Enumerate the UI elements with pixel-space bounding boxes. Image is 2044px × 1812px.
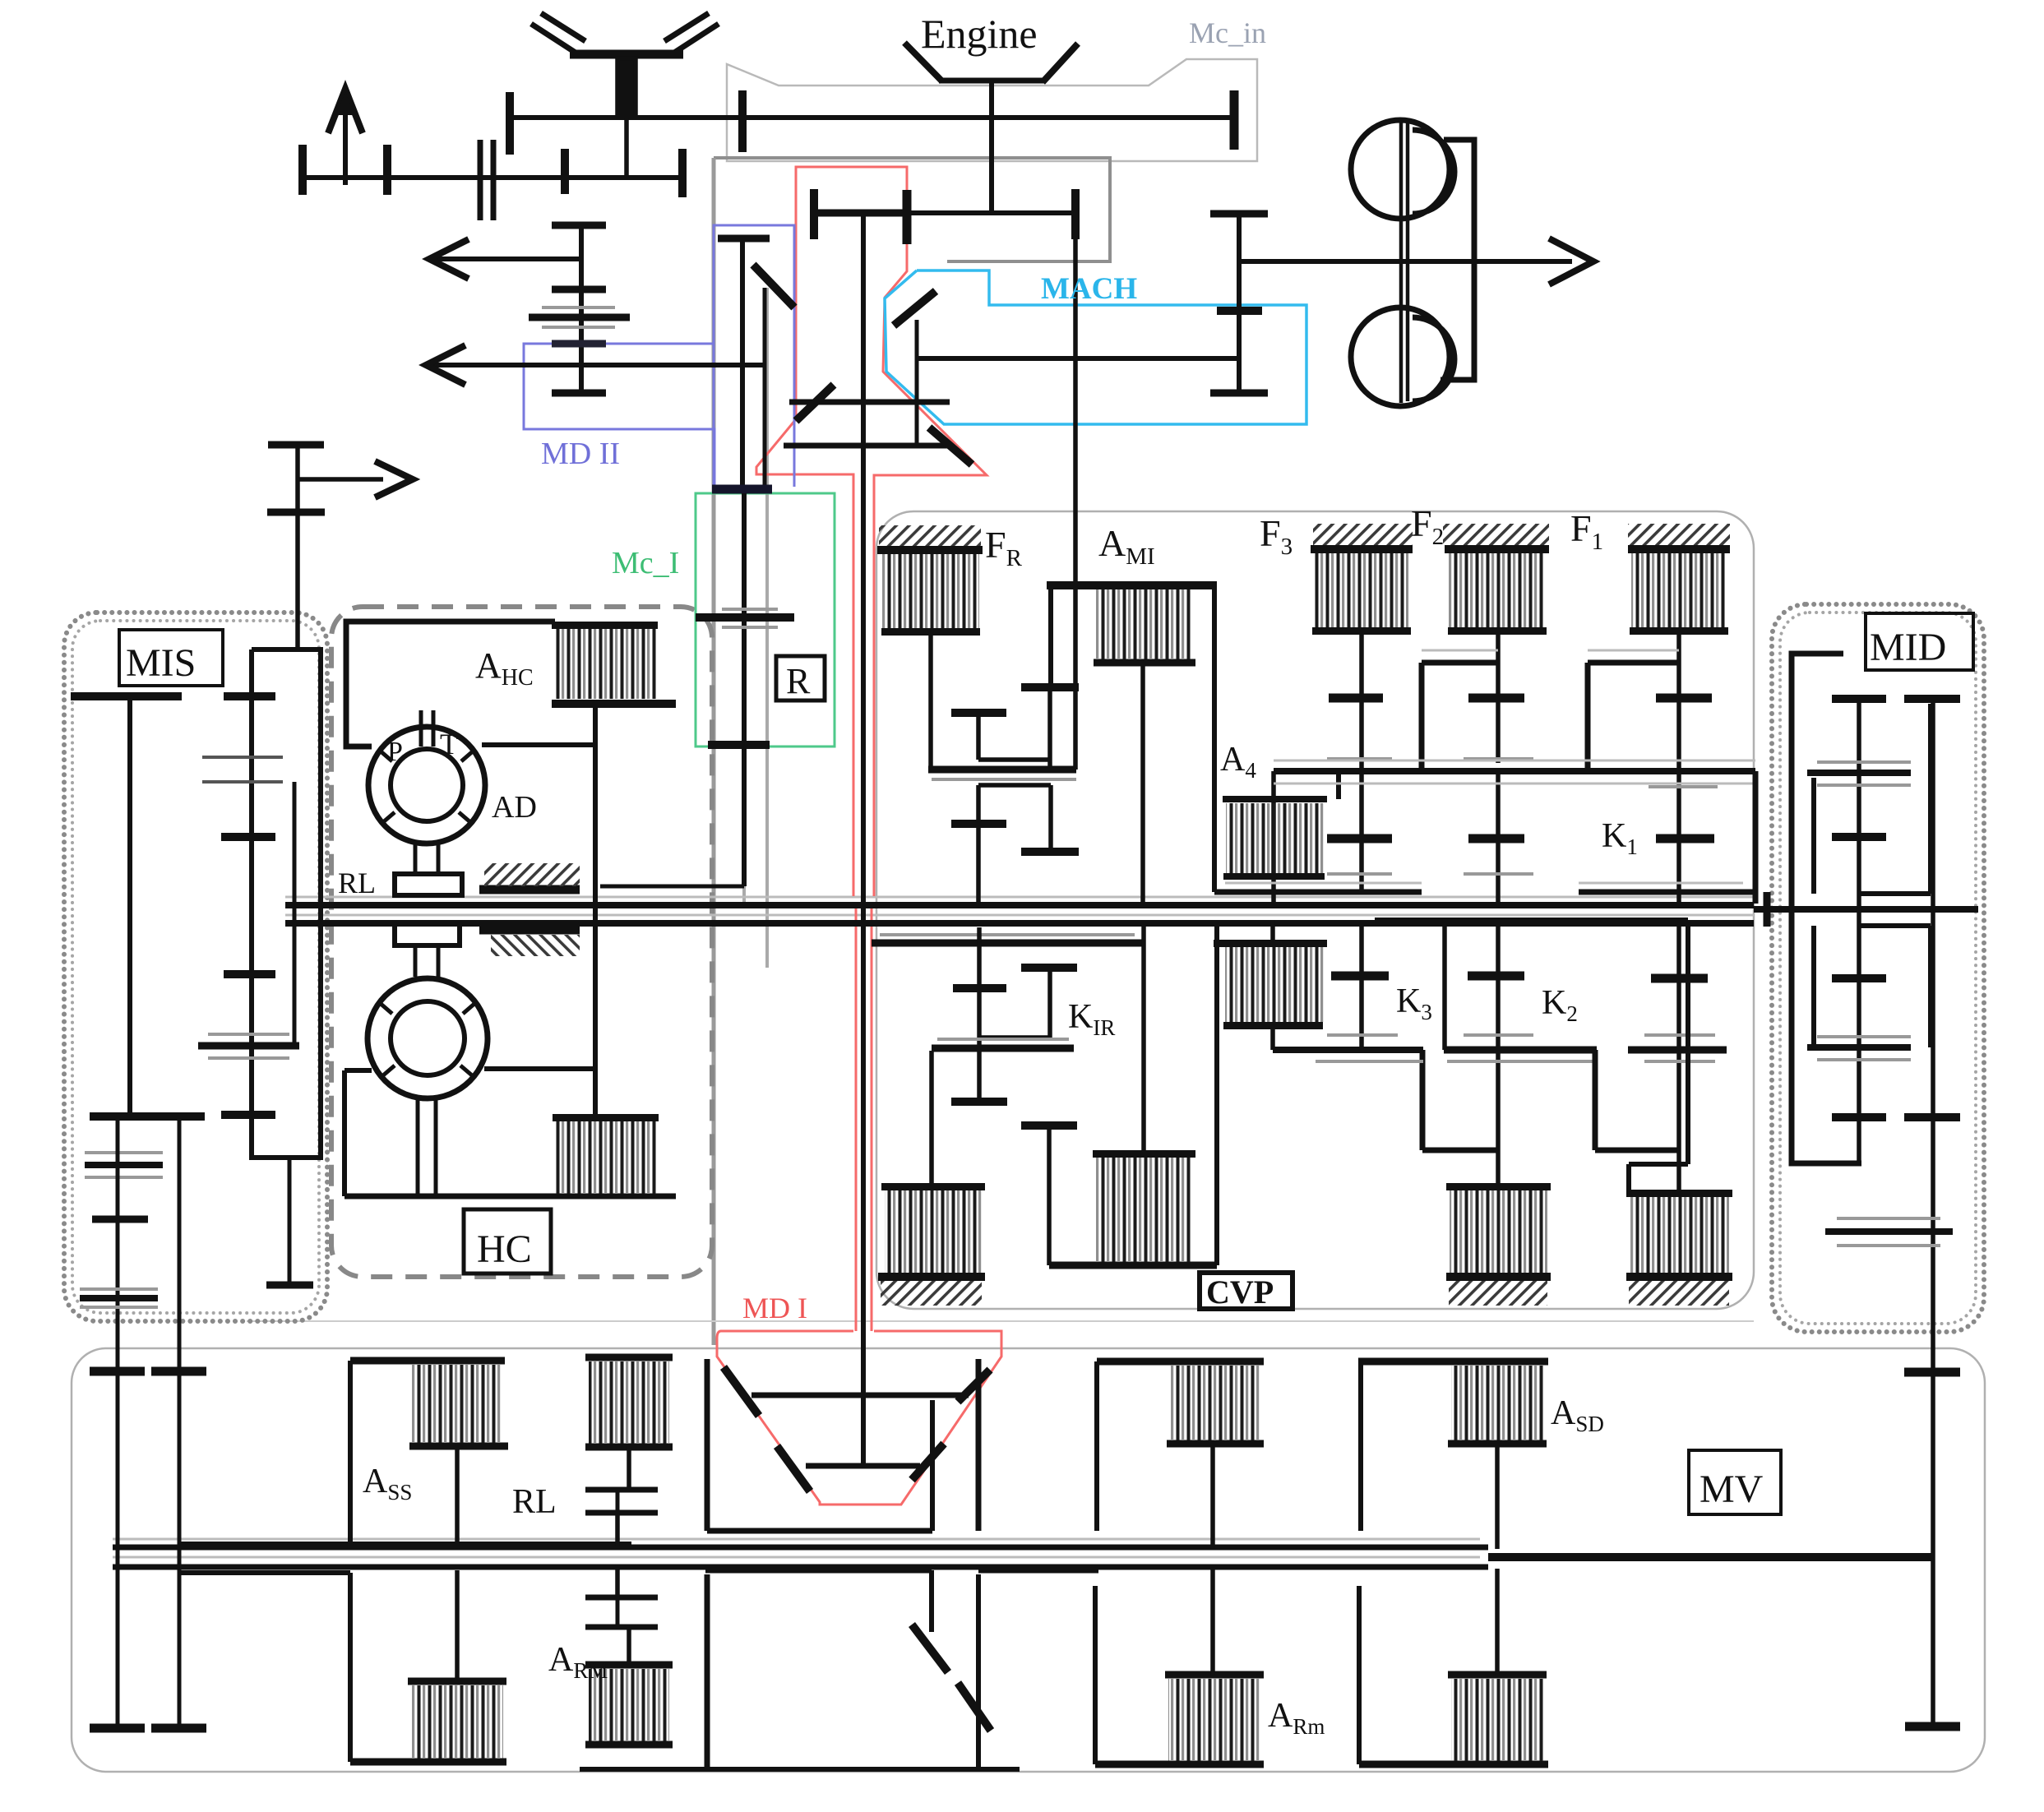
MD II top T bar (552, 222, 606, 229)
svg-text:RL: RL (512, 1483, 557, 1521)
A_Rm housing left leg (1094, 1361, 1099, 1531)
brake K2 ground pack (1626, 1190, 1732, 1197)
input tick x990 (810, 189, 818, 239)
svg-text:R: R (786, 661, 811, 701)
A_SD pack bottom bar (1448, 1440, 1547, 1448)
countershaft top T bar (1210, 210, 1268, 218)
funnel inner wall (930, 1400, 935, 1531)
F2 gray echo low (1464, 872, 1533, 876)
A_HC leg (593, 706, 598, 1117)
HC link circle2 (484, 1066, 595, 1071)
below A_SS link y1913 (180, 1570, 350, 1575)
planet stem x1190 lower (976, 785, 981, 904)
svg-text:CVP: CVP (1206, 1273, 1274, 1310)
MID axis1 tick y850 (1832, 695, 1886, 703)
svg-text:MACH: MACH (1041, 272, 1137, 306)
K_IR leg x1133 (929, 1051, 934, 1186)
MV shaft top line (113, 1545, 1488, 1551)
A_SD housing top bar (1358, 1358, 1548, 1366)
MID housing2 box (1814, 926, 1931, 1047)
main shaft top line (285, 902, 1754, 908)
A_SD housing left leg (1358, 1361, 1363, 1531)
jog F1 (1588, 663, 1679, 771)
A_SD stem (1495, 1445, 1500, 1549)
RL lower link (617, 1569, 629, 1665)
K1 gear tick y1020 (1656, 834, 1714, 844)
MV shaft gray shadow (113, 1538, 1480, 1541)
clutch P_mid pack (1093, 1150, 1195, 1158)
below A_SS bottom bar (350, 1759, 506, 1766)
tick lower shaft x471 (383, 145, 391, 195)
below funnel inner wall (929, 1570, 934, 1632)
below A_SD leg (1357, 1586, 1362, 1764)
pump2 circle outer (368, 978, 488, 1098)
P_mid bottom bar (1049, 1262, 1217, 1269)
A_SS lower link line (180, 1542, 631, 1546)
F2 gray echo (1464, 757, 1533, 760)
svg-text:Mc_I: Mc_I (612, 546, 679, 580)
funnel housing left wall (705, 1359, 710, 1531)
RL pack bottom bar (585, 1444, 673, 1451)
A_SS pack bottom bar (409, 1443, 508, 1450)
brake F_R pack (879, 525, 981, 548)
MD II right column axis (740, 238, 745, 487)
RL link to shaft (615, 1513, 620, 1546)
K_IR thick bar y1275 (932, 1045, 1074, 1052)
rail2 right segment (1579, 890, 1754, 895)
right arrow line (298, 477, 383, 482)
pump1 lower pipe (415, 844, 438, 874)
clutch P_low1 pack (1214, 940, 1327, 947)
K_IR stem x1191 (977, 927, 982, 1102)
MD I red shaft column (856, 903, 872, 1331)
bevel bar y542 (784, 443, 950, 449)
svg-text:Mc_in: Mc_in (1189, 16, 1266, 49)
MID axis1 tick y1018 (1832, 833, 1886, 841)
pump2 circle inner (391, 1001, 465, 1075)
svg-text:HC: HC (477, 1227, 532, 1271)
box R (776, 656, 825, 700)
below A_SD pack top bar (1448, 1671, 1547, 1679)
bevel tooth upper-right (894, 291, 936, 326)
MID synchro bar (1825, 1228, 1953, 1235)
up arrow shaft (343, 99, 348, 185)
MID housing1 gray shadows (1817, 762, 1911, 785)
planet bar y1036 (1021, 848, 1079, 856)
A_MI housing top bar (1047, 581, 1217, 589)
gray stub under R column (742, 886, 746, 905)
MIS capline gray2 (80, 1289, 158, 1307)
pump circle upper (1351, 120, 1450, 219)
K_IR housing top bar (872, 940, 1144, 947)
MIS inner vertical (293, 782, 297, 1046)
B2 bar y1277 (1444, 1047, 1597, 1054)
brake F3 pack (1313, 524, 1413, 546)
K_IR junction y1262 (979, 1035, 1051, 1040)
K_IR tick y1202 (953, 984, 1006, 992)
brake F1 pack (1628, 524, 1730, 546)
A_MI pack bottom bar (1094, 659, 1195, 667)
main shaft gray shadow inner (285, 914, 1754, 917)
P_mid housing right leg (1214, 921, 1219, 1265)
F2 K tick y1020 (1468, 834, 1524, 844)
funnel tooth lower-right (912, 1444, 944, 1480)
engine shaft vertical (989, 79, 994, 213)
RL ratchet post lower (616, 1599, 620, 1625)
K2 bar y1277 (1628, 1047, 1727, 1054)
R gear bar y751 (696, 613, 794, 622)
MV bottom tick x143 (90, 1724, 145, 1733)
output arrow head (1549, 238, 1593, 284)
K2 tick y1190 (1651, 974, 1708, 983)
below A_SD bottom bar (1359, 1761, 1548, 1768)
clutch A_RM lower pack (589, 1669, 669, 1741)
link bevel block to lower shaft (624, 118, 629, 178)
HC dashed border (331, 607, 712, 1277)
MIS bar y1356 (221, 1111, 275, 1119)
input clutch line (814, 210, 1076, 215)
K2 gray echoes (1644, 1035, 1715, 1061)
below A_Rm leg (1093, 1586, 1098, 1764)
below A_SS leg (348, 1573, 353, 1762)
R gear bar gray shadows (722, 609, 778, 627)
B2 link x1757 (1442, 926, 1447, 1050)
left arrow 1 head (429, 239, 469, 279)
RL box upper (395, 874, 462, 895)
bevel tooth lower-right (929, 428, 972, 465)
jog low right (1595, 1050, 1679, 1150)
F_R link bar y936 (928, 766, 1076, 774)
upper gear shaft above MIS (295, 445, 300, 649)
funnel tooth lower-left (777, 1446, 810, 1491)
RL box lower (395, 924, 460, 945)
A_RM pack bottom bar (585, 1741, 673, 1749)
clutch A_SS pack (412, 1365, 502, 1443)
funnel tooth upper-right (958, 1370, 990, 1402)
ground bar above shaft (479, 885, 580, 894)
CVP border (876, 511, 1754, 1309)
MIS column x143 (116, 1116, 120, 1728)
clutch RL pack (589, 1361, 669, 1444)
MV shaft right single (1488, 1553, 1933, 1561)
coupling double bars (480, 140, 493, 220)
A_SS housing top bar (350, 1357, 505, 1365)
MID axis2 tick y1359 (1904, 1113, 1960, 1121)
MID axis2 MV tick y2100 (1905, 1722, 1960, 1731)
MIS left axis (127, 696, 132, 1116)
A_Rm pack bottom bar (1167, 1440, 1264, 1448)
F1 gray echo (1649, 785, 1718, 788)
pump circle upper half-lobe (1413, 130, 1454, 214)
MD II bar y352 (552, 286, 606, 294)
K3 tick y1187 (1331, 972, 1389, 981)
box CVP (1200, 1273, 1293, 1309)
MACH cyan outline (885, 270, 1306, 424)
P_low1 stem upper (1270, 921, 1275, 940)
MIS dotted border (64, 612, 327, 1321)
K_IR link x1276 lower (1047, 1128, 1052, 1265)
MD II synchro gray lines (542, 307, 615, 327)
A_4 rail tick (1336, 773, 1341, 799)
svg-text:MIS: MIS (126, 641, 196, 685)
funnel bar y1697 (751, 1393, 969, 1398)
K_IR link x1277 (1047, 970, 1052, 1038)
RL ratchet bars lower (585, 1597, 658, 1627)
F3 K tick y1020 (1327, 834, 1392, 844)
gray vertical right of R column (765, 288, 769, 968)
shaft A top (510, 115, 1234, 120)
svg-text:MD II: MD II (541, 437, 620, 471)
MID axis1 (1857, 699, 1861, 1163)
RL ratchet bars upper (585, 1490, 658, 1513)
A_SS housing left leg (348, 1361, 353, 1544)
upper gear bar y623 (267, 509, 325, 516)
MID housing1 box (1814, 704, 1931, 894)
planet T bar y1002 (951, 820, 1006, 828)
bus rail y938 (1274, 768, 1755, 774)
tick on shaft A left end (506, 92, 514, 155)
MIS synchro grays y1272 (208, 1034, 289, 1058)
K2 column (1676, 921, 1681, 1193)
clutch HC lower pack (556, 1121, 657, 1194)
MD II bar y418 (552, 340, 606, 348)
A_MI housing right leg (1212, 585, 1217, 892)
clutch A_SD lower pack (1451, 1679, 1543, 1761)
RL pack top bar (585, 1354, 673, 1361)
MIS bar y1018 (221, 833, 275, 841)
below funnel right bar (978, 1568, 1098, 1574)
funnel tooth upper-left (724, 1367, 759, 1416)
below A_SS pack top bar (408, 1678, 506, 1685)
main shaft gray shadow upper (285, 896, 1754, 899)
svg-text:RL: RL (338, 867, 376, 899)
tick lower shaft x687 (561, 149, 569, 194)
HC top link circle1 (482, 742, 595, 747)
MIS bar y847 (224, 692, 275, 700)
MIS synchro bar y1272 (198, 1042, 299, 1050)
bevel left gear vertical (763, 288, 767, 487)
K_IR bar y1369 (1021, 1121, 1077, 1130)
RL ratchet post upper (616, 1491, 620, 1511)
pump1 spokes (380, 751, 474, 822)
upper gear top bar (268, 441, 324, 449)
MD I red outline upper (796, 167, 987, 896)
planet stem x1190 upper (978, 715, 1050, 760)
MV entry tick x218 (151, 1367, 206, 1376)
below A_Rm bottom bar (1095, 1761, 1264, 1768)
bus rail gray echoes (1274, 760, 1755, 784)
MIS synchro thin pair (202, 757, 283, 782)
F1 gear tick y849 (1656, 694, 1712, 703)
F2 gear tick y849 (1468, 694, 1524, 703)
gray echo of MACH shaft housing (917, 358, 1239, 359)
svg-text:MID: MID (1870, 626, 1946, 669)
MIS bar y1185 (224, 970, 275, 978)
ground hatch below shaft (491, 935, 580, 956)
jog low left (1422, 1050, 1498, 1150)
svg-text:MD I: MD I (742, 1292, 807, 1324)
MV/CVP channel line (247, 1320, 1754, 1322)
brake K_IR ground pack (881, 1183, 985, 1190)
MID axis2 tick y850 (1904, 695, 1960, 703)
K3 pack column (1496, 926, 1501, 1186)
clutch A_MI pack (1096, 589, 1191, 659)
Mc_in gray outline (727, 59, 1257, 161)
svg-text:T: T (440, 728, 458, 760)
pump1 top pipe (421, 710, 433, 747)
MIS top bar left (71, 692, 182, 700)
A_4 bottom bar (1223, 873, 1325, 880)
K_IR bar gray echo (937, 1038, 1069, 1041)
below funnel right wall (976, 1574, 981, 1769)
F2 lower column segment (1496, 771, 1501, 905)
F2 stem (1496, 633, 1501, 763)
svg-text:P: P (387, 737, 403, 767)
box MV (1689, 1450, 1781, 1514)
below A_Rm pack top bar (1165, 1671, 1264, 1679)
MID housing1 bar (1807, 770, 1911, 776)
RL pack stem (627, 1447, 631, 1488)
svg-text:MV: MV (1699, 1468, 1764, 1511)
pump1 circle inner (391, 749, 463, 821)
P_low1 stem lower (1270, 1025, 1275, 1050)
MIS capline gray1 (85, 1153, 163, 1177)
F3 stem (1359, 633, 1364, 892)
planet link x1278 lower (1048, 785, 1053, 848)
bevel tooth upper-left (753, 265, 794, 307)
bevel block (617, 58, 636, 118)
MIS bottom tick (266, 1282, 313, 1289)
pump circle lower half-lobe (1413, 317, 1454, 401)
junction bar y595 (712, 485, 772, 494)
HC bottom edge (345, 1194, 676, 1200)
bevel center shaft (861, 215, 866, 1466)
input tick x1308 (1071, 189, 1080, 239)
PACKS (411, 524, 1732, 1761)
MD II blue outline (524, 344, 714, 487)
K2 housing right leg (1629, 921, 1688, 1193)
jog gray echoes (1422, 649, 1679, 652)
MV border (72, 1348, 1985, 1772)
shaft tick at MID border (1764, 892, 1771, 927)
R bottom bar y906 (708, 741, 770, 749)
MD II synchro bar (529, 314, 630, 321)
ground hatch above shaft (484, 863, 580, 886)
clutch A_Rm lower pack (1168, 1679, 1260, 1761)
K_IR T bar y1177 (1021, 964, 1077, 972)
bevel right gear vertical (915, 320, 919, 446)
MIS capline black1 (85, 1162, 163, 1168)
MD II bottom T bar (552, 390, 606, 397)
jog F2 (1422, 663, 1498, 771)
F3 gray echoes (1327, 759, 1392, 874)
MV lower bottom line (580, 1767, 1020, 1772)
MID axis2 MV tick y1669 (1904, 1368, 1960, 1377)
COLOR-OUTLINES (524, 167, 1306, 1505)
funnel housing right wall (976, 1359, 982, 1531)
low rails gray echoes (1316, 1035, 1595, 1061)
pump1 circle outer (368, 727, 485, 844)
planet link y955 (978, 783, 1051, 788)
input tick x1103 (903, 190, 912, 244)
K3 gear tick y1187 (1468, 972, 1524, 981)
up arrow head (328, 89, 363, 133)
A_SS stem (455, 1449, 460, 1544)
below A_SD stem (1495, 1569, 1500, 1675)
MD I red funnel (717, 1331, 1001, 1505)
clutch A_Rm pack (1170, 1366, 1260, 1440)
tick on shaft A right end (1230, 90, 1239, 150)
clutch A_SS lower pack (411, 1685, 503, 1759)
pump2 upper pipe (415, 945, 438, 977)
MIS bottom bar left (90, 1112, 205, 1121)
output arrow (1239, 259, 1572, 264)
MV entry tick x143 (90, 1367, 145, 1376)
left arrow 2 shaft (432, 363, 766, 367)
countershaft vertical (1237, 214, 1242, 393)
MIS lower stub (288, 1158, 292, 1285)
main shaft bottom line (285, 920, 1754, 927)
below funnel left wall (705, 1574, 710, 1769)
bevel bar y489 (789, 400, 950, 405)
tick on shaft A mid (738, 90, 747, 152)
rail2 left segment (1214, 890, 1422, 895)
R column (742, 493, 747, 886)
clutch A_4 pack (1226, 803, 1324, 873)
below funnel box left (705, 1568, 932, 1574)
MIS capline black2 (80, 1295, 158, 1301)
F1 stem (1676, 633, 1681, 904)
lower left shaft (303, 175, 682, 180)
MID housing2 bar (1807, 1044, 1911, 1051)
A_MI stem (1140, 666, 1145, 904)
rail low left (1273, 1047, 1423, 1053)
MID housing2 gray shadows (1817, 1037, 1911, 1060)
box MID (1866, 613, 1973, 670)
housing leg right upper (1753, 771, 1759, 904)
ground bar below shaft (479, 926, 580, 935)
left arrow 1 (434, 257, 581, 261)
MIS right box (252, 649, 321, 1158)
MD II gear column (579, 225, 584, 393)
MID axis2 (1931, 699, 1935, 1726)
A_RM pack top bar (585, 1662, 673, 1669)
P_mid stem (1141, 926, 1146, 1153)
right arrow head (375, 461, 413, 497)
MV bottom tick x218 (151, 1724, 206, 1733)
brake F2 pack (1443, 524, 1549, 546)
tick lower shaft x830 (678, 149, 687, 197)
pump2 spokes (380, 1003, 475, 1075)
K_IR housing gray echo (880, 933, 1135, 936)
countershaft bottom T bar (1210, 390, 1268, 397)
gray vertical shaft outline column (712, 158, 716, 1345)
box MIS (119, 630, 223, 686)
MD II right column T bar (718, 235, 770, 243)
input shaft down into CVP (1073, 239, 1078, 770)
MIS tick y1483 (92, 1216, 148, 1223)
pump2 lower pipe (418, 1098, 436, 1196)
K_IR T bar y1340 (951, 1098, 1007, 1106)
HC inner box top-left (346, 622, 555, 747)
A_Rm stem (1210, 1445, 1215, 1549)
svg-text:Engine: Engine (921, 11, 1038, 57)
brake K3 ground pack (1446, 1183, 1551, 1190)
below A_Rm stem (1210, 1569, 1215, 1675)
below A_SS stem (455, 1570, 460, 1681)
MIS column x218 (178, 1116, 182, 1728)
planet link x1277 upper (1047, 691, 1052, 766)
